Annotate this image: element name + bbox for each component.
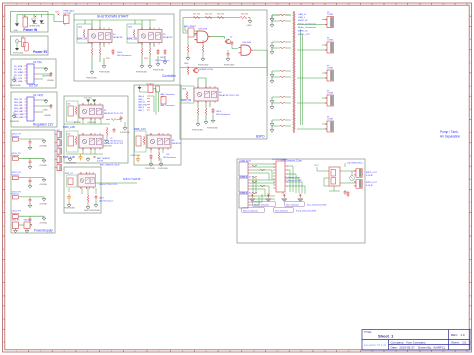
- svg-text:TVS1: TVS1: [55, 12, 60, 14]
- svg-text:R23 10k: R23 10k: [217, 14, 224, 16]
- svg-text:Air Separation: Air Separation: [440, 135, 460, 139]
- svg-text:U01: U01: [67, 104, 70, 106]
- svg-text:U2GND: U2GND: [47, 80, 55, 82]
- svg-text:LED Resistance: LED Resistance: [216, 113, 231, 116]
- svg-text:0.28.4F: 0.28.4F: [97, 161, 104, 163]
- svg-text:BMK_03: BMK_03: [181, 98, 192, 102]
- svg-text:REG_BST: REG_BST: [14, 111, 24, 113]
- svg-text:CAN_L: CAN_L: [298, 16, 306, 19]
- svg-text:EasyEDA V5.9.29: EasyEDA V5.9.29: [364, 343, 387, 347]
- svg-text:Date: 2019-05-27 Drawn By:: Date: 2019-05-27 Drawn By: IkARF11: [391, 346, 446, 350]
- svg-text:P/GROUND: P/GROUND: [198, 65, 209, 67]
- svg-text:U2GND: U2GND: [44, 115, 52, 117]
- svg-text:GND/PWR: GND/PWR: [42, 76, 52, 78]
- svg-text:LED Resistance: LED Resistance: [117, 54, 132, 57]
- svg-text:LED4: LED4: [117, 52, 123, 54]
- svg-text:REV: 1.0: REV: 1.0: [451, 333, 465, 337]
- svg-text:Pump_Connection: Pump_Connection: [298, 23, 317, 26]
- svg-text:P/GROUND: P/GROUND: [120, 132, 130, 134]
- svg-text:Manual_Solenoid: Manual_Solenoid: [243, 210, 258, 212]
- svg-text:CAN_L: CAN_L: [138, 98, 144, 101]
- svg-text:C24: C24: [166, 154, 169, 156]
- svg-text:BMS_L1B: BMS_L1B: [63, 155, 75, 159]
- svg-text:GND: GND: [14, 30, 19, 32]
- svg-text:CONN: CONN: [327, 14, 333, 16]
- svg-text:P/GROUND: P/GROUND: [192, 130, 203, 132]
- svg-text:U1 POE: U1 POE: [64, 13, 72, 15]
- svg-text:CAN_Connection: CAN_Connection: [160, 104, 175, 107]
- svg-text:RELAY-SP: RELAY-SP: [163, 36, 173, 39]
- svg-text:0.28.4F: 0.28.4F: [366, 175, 374, 177]
- svg-text:CAN_T: CAN_T: [138, 109, 145, 112]
- svg-text:P/GROUND: P/GROUND: [207, 128, 218, 130]
- svg-text:LED3: LED3: [216, 111, 222, 113]
- svg-text:Pump / Tank,: Pump / Tank,: [440, 130, 459, 134]
- svg-text:LED Resistance: LED Resistance: [163, 156, 176, 159]
- svg-text:K1: K1: [104, 110, 106, 112]
- svg-text:+12V GND: +12V GND: [87, 122, 96, 124]
- svg-text:RELAY-SP 7R-1C-12V: RELAY-SP 7R-1C-12V: [104, 142, 124, 145]
- svg-text:D1 D2: D1 D2: [31, 19, 36, 21]
- svg-text:R24 10k: R24 10k: [241, 14, 248, 16]
- svg-text:P/GROUND: P/GROUND: [224, 65, 235, 67]
- svg-text:BMS_L2B: BMS_L2B: [63, 125, 75, 129]
- svg-text:K2: K2: [104, 140, 106, 142]
- svg-text:P/GROUND: P/GROUND: [10, 85, 21, 87]
- svg-text:LED7: LED7: [99, 198, 105, 200]
- svg-text:74HC1G08: 74HC1G08: [242, 42, 251, 44]
- svg-text:R22 10k: R22 10k: [205, 14, 212, 16]
- svg-text:+GND: +GND: [42, 110, 48, 112]
- svg-text:BMK_04: BMK_04: [77, 37, 88, 41]
- svg-text:BSPD_5V: BSPD_5V: [298, 31, 308, 33]
- svg-text:U2, 5(V): U2, 5(V): [33, 61, 42, 64]
- svg-text:P/GROUND: P/GROUND: [131, 155, 141, 157]
- svg-text:P/GROUND: P/GROUND: [99, 72, 110, 74]
- svg-text:BSPD: BSPD: [256, 135, 265, 139]
- svg-text:Q7: Q7: [230, 37, 232, 39]
- svg-text:CAN_H: CAN_H: [138, 95, 145, 98]
- svg-text:BSPD_OUT: BSPD_OUT: [366, 182, 378, 184]
- svg-text:PD_VBUS: PD_VBUS: [14, 72, 24, 74]
- svg-text:R21 10k: R21 10k: [193, 14, 200, 16]
- svg-text:74HC1G08: 74HC1G08: [198, 29, 207, 31]
- svg-text:BMS_12V: BMS_12V: [134, 127, 146, 131]
- svg-text:RELAY-SP: RELAY-SP: [113, 36, 123, 39]
- svg-text:Sheet: 1/1: Sheet: 1/1: [451, 341, 467, 345]
- svg-text:BATT_SENSOR 0.28.4F: BATT_SENSOR 0.28.4F: [100, 164, 121, 167]
- svg-text:SLB_Sensors_Conn: SLB_Sensors_Conn: [283, 176, 300, 179]
- svg-text:VCC VCC: VCC VCC: [84, 98, 93, 100]
- svg-text:Power IN: Power IN: [23, 28, 37, 32]
- svg-text:P/GROUND: P/GROUND: [66, 163, 76, 165]
- svg-text:CAN_GND: CAN_GND: [138, 103, 147, 106]
- svg-text:P/GROUND: P/GROUND: [102, 146, 112, 148]
- svg-text:CAN_H: CAN_H: [298, 13, 306, 16]
- svg-text:P/GROUND: P/GROUND: [86, 78, 97, 80]
- svg-text:Company: Your Company: Company: Your Company: [391, 341, 427, 345]
- svg-text:MGND GND: MGND GND: [30, 26, 41, 28]
- svg-text:P/GROUND: P/GROUND: [158, 168, 168, 170]
- svg-text:CONN_SLB1: CONN_SLB1: [239, 161, 252, 163]
- svg-text:Pump_Solenoid 0.28.4F: Pump_Solenoid 0.28.4F: [296, 210, 317, 212]
- svg-text:Controller: Controller: [162, 74, 177, 78]
- svg-text:Q1: Q1: [22, 37, 24, 39]
- svg-text:P/GROUND: P/GROUND: [64, 208, 75, 210]
- svg-text:Manual_Solenoid: Manual_Solenoid: [254, 204, 269, 206]
- svg-text:P/GROUND: P/GROUND: [145, 168, 155, 170]
- svg-text:BSPD_RESET: BSPD_RESET: [184, 26, 197, 28]
- svg-text:CN1: CN1: [56, 130, 60, 132]
- svg-text:PWRGND: PWRGND: [10, 121, 20, 123]
- svg-text:Power 5V: Power 5V: [33, 50, 48, 54]
- svg-text:SW2_PS: SW2_PS: [24, 220, 32, 222]
- svg-text:Q8 BMP 547-TA: Q8 BMP 547-TA: [199, 68, 213, 71]
- svg-text:RELAY-SP 7R-1C-12V: RELAY-SP 7R-1C-12V: [104, 112, 124, 115]
- svg-text:Sheet_1: Sheet_1: [378, 334, 394, 339]
- svg-text:RELAY-SP 7R-1C-12V: RELAY-SP 7R-1C-12V: [219, 94, 240, 97]
- svg-text:VCC: VCC: [314, 165, 319, 167]
- svg-text:Vac1_Solenoid 0.28.4F: Vac1_Solenoid 0.28.4F: [307, 204, 327, 206]
- svg-text:CAN_S: CAN_S: [138, 106, 145, 109]
- svg-text:U2, 12(V): U2, 12(V): [33, 94, 43, 97]
- svg-text:Regulator 12V: Regulator 12V: [33, 123, 54, 127]
- svg-text:J: J: [470, 226, 471, 228]
- svg-text:U9 ULN2003AD: U9 ULN2003AD: [272, 158, 287, 161]
- svg-text:LED Resistance: LED Resistance: [99, 200, 114, 203]
- svg-text:PowerSupply: PowerSupply: [34, 229, 53, 233]
- svg-text:TITLE:: TITLE:: [364, 330, 372, 334]
- svg-text:+GND: +GND: [246, 25, 252, 27]
- svg-text:SLB 6-P 7R-1C-12V: SLB 6-P 7R-1C-12V: [99, 184, 118, 186]
- svg-text:LED Resistance: LED Resistance: [155, 59, 170, 62]
- svg-text:CAN_Connection: CAN_Connection: [160, 93, 175, 96]
- svg-text:P/GROUND: P/GROUND: [13, 53, 24, 55]
- svg-text:BSPD_OUT: BSPD_OUT: [298, 34, 310, 36]
- svg-text:SLB_6T: SLB_6T: [65, 173, 74, 175]
- svg-text:U02: U02: [67, 134, 70, 136]
- svg-text:P/GROUND: P/GROUND: [136, 72, 147, 74]
- svg-text:CAN_5V: CAN_5V: [138, 101, 146, 104]
- svg-text:BSPD_OUT: BSPD_OUT: [366, 172, 378, 174]
- svg-text:K6: K6: [172, 140, 174, 142]
- svg-text:P/GROUND: P/GROUND: [153, 70, 164, 72]
- svg-text:GND: GND: [184, 63, 189, 65]
- svg-text:BK:GND: BK:GND: [74, 122, 82, 124]
- svg-text:BMK_05: BMK_05: [127, 37, 138, 41]
- svg-text:BSPD_IN: BSPD_IN: [298, 20, 308, 22]
- svg-text:U10 LM393-DR-2: U10 LM393-DR-2: [347, 163, 364, 165]
- svg-text:SLB_Sensors 0.28.4F: SLB_Sensors 0.28.4F: [283, 179, 302, 182]
- svg-text:SHUTDOWN START: SHUTDOWN START: [97, 15, 129, 19]
- svg-text:J: J: [3, 226, 4, 228]
- svg-text:0.28.4F: 0.28.4F: [366, 185, 374, 187]
- svg-text:+5VGND: +5VGND: [39, 146, 48, 148]
- svg-text:Brake_Connection: Brake_Connection: [298, 26, 317, 29]
- svg-text:SLB 6-T SLB 6P: SLB 6-T SLB 6P: [123, 178, 141, 181]
- svg-text:PWR_JACK: PWR_JACK: [64, 10, 76, 13]
- svg-text:Vac2_Solenoid: Vac2_Solenoid: [275, 210, 288, 212]
- svg-text:Vac1_Solenoid: Vac1_Solenoid: [286, 204, 299, 206]
- svg-text:SW1_PS: SW1_PS: [12, 220, 20, 222]
- svg-text:RELAY-SP: RELAY-SP: [172, 142, 182, 145]
- svg-text:GND P/GROUND: GND P/GROUND: [84, 210, 100, 212]
